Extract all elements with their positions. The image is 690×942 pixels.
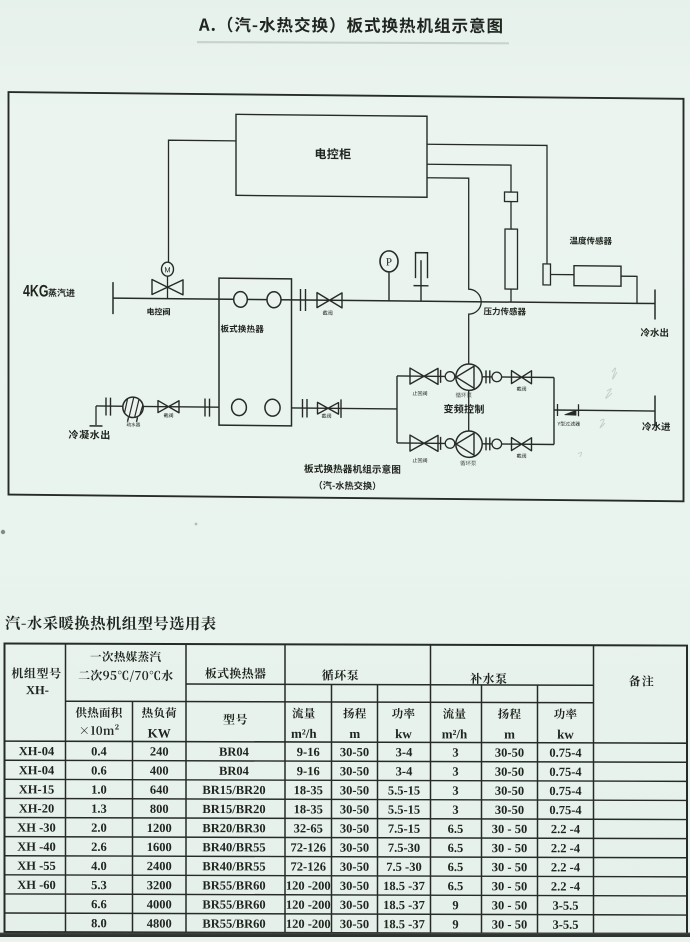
svg-text:6.5: 6.5 [448, 860, 464, 874]
svg-text:18.5 -37: 18.5 -37 [383, 898, 425, 912]
svg-text:3-5.5: 3-5.5 [552, 918, 578, 932]
pressure gauge P [380, 251, 398, 272]
svg-text:2.2 -4: 2.2 -4 [551, 822, 581, 836]
table column line x=285 [284, 644, 286, 933]
svg-text:4000: 4000 [147, 897, 172, 911]
scanner dark band at bottom edge [0, 933, 690, 937]
svg-text:3-4: 3-4 [396, 764, 413, 778]
label 截阀 (water valve) [322, 414, 331, 419]
table column line x=132.5 [132, 701, 134, 932]
header 循环泵 [322, 669, 358, 680]
pressure sensor tall rect [505, 229, 518, 289]
svg-text:72-126: 72-126 [291, 840, 326, 854]
svg-text:120 -200: 120 -200 [286, 879, 331, 893]
svg-text:400: 400 [150, 764, 169, 778]
table row line 9 [5, 894, 688, 896]
bottom branch pipe [397, 442, 456, 445]
table outer border [5, 644, 688, 935]
svg-text:30-50: 30-50 [340, 764, 369, 778]
water return pipe from HX to pump manifold [292, 408, 398, 409]
svg-text:3: 3 [452, 784, 458, 798]
table column line x=331.5 [331, 684, 333, 933]
HX top port circle left [234, 292, 248, 308]
electric control cabinet box [236, 114, 427, 197]
label 电控柜 [316, 148, 351, 160]
check valve 止回阀 top [410, 368, 438, 384]
svg-text:30-50: 30-50 [340, 841, 369, 855]
union circle topa [445, 372, 455, 382]
electric control valve 电控阀 bowtie [152, 280, 183, 295]
table row line 10 [5, 913, 688, 915]
svg-text:XH -55: XH -55 [17, 859, 56, 873]
svg-text:6.5: 6.5 [448, 822, 464, 836]
svg-text:5.5-15: 5.5-15 [388, 783, 420, 797]
svg-text:0.75-4: 0.75-4 [549, 784, 582, 798]
gate valve 截阀 bottom [512, 438, 532, 451]
svg-text:1.3: 1.3 [91, 802, 107, 816]
svg-text:0.75-4: 0.75-4 [549, 746, 582, 760]
svg-text:XH -40: XH -40 [17, 840, 56, 854]
HX top port circle right [267, 292, 281, 308]
subheader 型号 [223, 713, 247, 724]
svg-text:BR04: BR04 [219, 764, 250, 778]
title underline shadow [197, 41, 509, 44]
svg-text:XH -60: XH -60 [17, 878, 56, 892]
steam line gate valve 截阀 [317, 293, 342, 308]
svg-text:5.3: 5.3 [91, 878, 107, 892]
subheader 流量 @303.8 [292, 708, 315, 719]
label 截阀 (condensate valve) [164, 413, 173, 418]
svg-text:KW: KW [148, 725, 171, 740]
cold water inlet end tick [654, 396, 656, 427]
svg-text:0.6: 0.6 [91, 763, 107, 777]
svg-text:BR55/BR60: BR55/BR60 [202, 898, 265, 912]
link transmitter to pipe [621, 276, 637, 303]
svg-text:30 - 50: 30 - 50 [492, 879, 527, 893]
svg-text:9-16: 9-16 [297, 764, 320, 778]
union circle bottoma [445, 439, 455, 449]
svg-text:6.5: 6.5 [448, 879, 464, 893]
table horizontal line under group header (板式换热器/循环泵/补水泵) [186, 684, 594, 685]
circulation pump 循环泵 bottom [456, 431, 482, 458]
subheader 功率 @403.5 [392, 708, 415, 719]
pressure sensor junction small rect [505, 192, 518, 202]
svg-text:7.5 -30: 7.5 -30 [386, 860, 421, 874]
svg-text:30 - 50: 30 - 50 [492, 917, 527, 931]
top branch pipe [397, 375, 456, 378]
label 止回阀 top [413, 391, 427, 396]
Y strainer tick right [578, 404, 580, 416]
circulation pump 循环泵 top [456, 364, 482, 391]
check valve 止回阀 bottom [410, 435, 438, 451]
svg-text:XH -30: XH -30 [17, 821, 56, 835]
svg-text:0.4: 0.4 [91, 744, 107, 758]
plate heat exchanger box [219, 278, 292, 426]
table row line 8 [5, 875, 688, 877]
link probe to transmitter [551, 273, 575, 275]
subheader 功率 @565.5 [554, 708, 577, 719]
svg-text:kw: kw [395, 726, 412, 741]
steam pipe left end tick [112, 282, 114, 314]
thermometer well [420, 260, 422, 301]
svg-text:18.5 -37: 18.5 -37 [383, 917, 425, 931]
svg-text:120 -200: 120 -200 [286, 898, 331, 912]
subheader 流量 @454.5 [443, 708, 466, 719]
temperature probe small rect [543, 264, 551, 285]
svg-text:M: M [164, 265, 170, 274]
svg-text:120 -200: 120 -200 [286, 917, 331, 931]
svg-text:9: 9 [452, 917, 458, 931]
Y strainer triangle [565, 410, 576, 415]
svg-text:kw: kw [557, 727, 574, 742]
table horizontal line under 一次热媒蒸汽 cell and strip row [66, 701, 594, 703]
svg-text:3-5.5: 3-5.5 [552, 899, 578, 913]
table title 汽-水采暖换热机组型号选用表 [5, 615, 215, 630]
svg-text:800: 800 [150, 802, 169, 816]
svg-text:30-50: 30-50 [340, 879, 369, 893]
header 一次热媒蒸汽 [91, 651, 161, 662]
svg-text:XH-20: XH-20 [19, 801, 54, 815]
subheader 扬程 @354.8 [343, 708, 366, 719]
header 二次95℃/70℃水 [79, 669, 173, 682]
svg-text:30-50: 30-50 [495, 803, 524, 817]
svg-text:BR15/BR20: BR15/BR20 [202, 802, 265, 816]
label 温度传感器 [570, 236, 612, 245]
condensate union flanges 2 [204, 399, 206, 417]
table column line x=537.5 [537, 685, 539, 934]
table column line x=481.5 [481, 685, 483, 934]
svg-text:30-50: 30-50 [340, 898, 369, 912]
label 疏水器 [127, 422, 141, 426]
page title A.(汽-水热交换)板式换热机组示意图 [199, 16, 502, 33]
svg-text:240: 240 [150, 745, 169, 759]
svg-text:72-126: 72-126 [291, 860, 326, 874]
svg-text:3200: 3200 [147, 878, 172, 892]
svg-text:3: 3 [452, 803, 458, 817]
flange bars bottomb [485, 437, 487, 450]
svg-text:XH-: XH- [26, 683, 49, 697]
pump manifold left vertical [396, 376, 398, 443]
control wire 3 with hop over steam pipe [427, 178, 481, 364]
svg-text:640: 640 [150, 783, 169, 797]
variable frequency control wire between pumps [468, 390, 470, 431]
svg-text:18-35: 18-35 [294, 783, 323, 797]
svg-text:BR15/BR20: BR15/BR20 [202, 783, 265, 797]
steam inlet pipe 4KG [113, 298, 655, 303]
flange bar topa [440, 370, 442, 383]
condensate gate valve 截阀 [158, 401, 179, 413]
svg-text:m: m [349, 726, 360, 741]
svg-text:m²/h: m²/h [442, 726, 468, 741]
table column line x=593.5 [593, 645, 595, 934]
steam line union after HX [300, 289, 302, 311]
HX bottom port circle left [232, 399, 247, 416]
svg-text:30-50: 30-50 [340, 745, 369, 759]
table column line x=430.5 [430, 645, 432, 934]
svg-text:BR04: BR04 [219, 745, 250, 759]
table column line x=186 [185, 644, 187, 933]
label 电控阀 [147, 308, 170, 316]
svg-text:30-50: 30-50 [340, 783, 369, 797]
svg-text:30-50: 30-50 [340, 822, 369, 836]
motor actuator circle M [162, 262, 174, 276]
svg-text:BR55/BR60: BR55/BR60 [202, 917, 265, 931]
label 变频控制 [444, 404, 484, 414]
cold water inlet pipe with Y strainer [554, 410, 655, 411]
svg-text:18.5 -37: 18.5 -37 [383, 879, 425, 893]
svg-text:30-50: 30-50 [340, 917, 369, 931]
label 循环泵 bottom [460, 460, 476, 465]
water line gate valve 截阀 [318, 402, 339, 414]
svg-text:XH-04: XH-04 [19, 763, 55, 777]
svg-text:3: 3 [452, 765, 458, 779]
subheader 扬程 @509.5 [498, 708, 521, 719]
svg-text:P: P [386, 256, 392, 268]
steam trap feet [128, 417, 129, 422]
schematic border frame [9, 92, 684, 501]
Y strainer tick left [557, 404, 559, 416]
table row line 7 [5, 856, 688, 858]
label 冷水进 [642, 422, 670, 431]
svg-text:2.2 -4: 2.2 -4 [551, 860, 581, 874]
svg-text:6.5: 6.5 [448, 841, 464, 855]
caption 板式换热器机组示意图 [304, 464, 400, 474]
header 板式换热器 [205, 667, 266, 679]
table row line 3 [5, 779, 688, 781]
subheader x10m2 [81, 724, 119, 735]
gate valve 截阀 top [512, 371, 532, 384]
faint pencil smudges [578, 368, 617, 457]
svg-text:30-50: 30-50 [340, 802, 369, 816]
label 冷水出 [641, 328, 668, 337]
svg-text:7.5-30: 7.5-30 [388, 841, 420, 855]
svg-text:3: 3 [452, 745, 458, 759]
flange bar bottoma [440, 437, 442, 450]
sensor wire 2 (pressure) [427, 164, 511, 192]
sensor wire 1 (temperature) [427, 144, 547, 264]
HX bottom port circle right [265, 399, 280, 416]
svg-text:8.0: 8.0 [91, 916, 107, 930]
union circle bottomb [492, 439, 502, 449]
caption (汽-水热交换) [320, 481, 376, 490]
svg-text:9: 9 [452, 898, 458, 912]
label Y型过滤器 [558, 421, 581, 426]
label 截阀 bottom [517, 453, 526, 458]
label 截阀 top [517, 386, 526, 391]
label 止回阀 bottom [413, 458, 427, 463]
small scan specks left edge [1, 530, 5, 534]
svg-text:BR55/BR60: BR55/BR60 [202, 878, 265, 892]
svg-text:6.6: 6.6 [91, 897, 107, 911]
svg-text:BR20/BR30: BR20/BR30 [202, 821, 265, 835]
table subheader bottom line [5, 741, 688, 743]
flange bars topb [485, 370, 487, 383]
svg-text:2.6: 2.6 [91, 840, 107, 854]
svg-text:9-16: 9-16 [297, 745, 320, 759]
condensate pipe [96, 406, 219, 407]
svg-text:18-35: 18-35 [294, 802, 323, 816]
svg-text:XH-04: XH-04 [19, 744, 55, 758]
header 补水泵 [470, 673, 506, 684]
svg-text:32-65: 32-65 [294, 821, 323, 835]
svg-text:5.5-15: 5.5-15 [388, 803, 420, 817]
svg-text:30-50: 30-50 [495, 765, 524, 779]
svg-text:30-50: 30-50 [495, 784, 524, 798]
svg-text:4800: 4800 [147, 916, 172, 930]
subheader 供热面积 [76, 707, 122, 718]
svg-text:BR40/BR55: BR40/BR55 [202, 859, 265, 873]
svg-text:30-50: 30-50 [495, 746, 524, 760]
svg-text:2.2 -4: 2.2 -4 [551, 841, 581, 855]
condensate drain elbow [95, 406, 97, 425]
pressure gauge stem [388, 272, 390, 301]
svg-text:30 - 50: 30 - 50 [492, 898, 527, 912]
svg-text:4.0: 4.0 [91, 859, 107, 873]
svg-text:1600: 1600 [147, 840, 172, 854]
svg-text:m: m [504, 727, 515, 742]
header 备注 [629, 675, 654, 686]
table row line 5 [5, 818, 688, 820]
svg-text:30 - 50: 30 - 50 [492, 860, 527, 874]
steam pipe right end tick [654, 290, 656, 320]
label 蒸汽进 [48, 288, 75, 297]
table row line 6 [5, 837, 688, 839]
svg-text:4KG: 4KG [23, 282, 49, 300]
condensate union flanges [105, 398, 107, 416]
wire cabinet to motor valve [169, 140, 237, 263]
svg-text:2400: 2400 [147, 859, 172, 873]
table row line 4 [5, 798, 688, 800]
label 压力传感器 [484, 307, 526, 316]
svg-text:0.75-4: 0.75-4 [549, 765, 582, 779]
svg-text:30-50: 30-50 [340, 860, 369, 874]
svg-text:2.0: 2.0 [91, 821, 107, 835]
svg-text:m²/h: m²/h [291, 726, 317, 741]
label 板式换热器 (inside box) [221, 324, 264, 332]
svg-text:7.5-15: 7.5-15 [388, 822, 420, 836]
table row line 2 [5, 760, 688, 762]
table column line x=377.5 [377, 685, 379, 934]
subheader 热负荷 [142, 707, 176, 718]
svg-text:1200: 1200 [147, 821, 172, 835]
pump manifold right vertical [553, 378, 555, 445]
motor valve stem [167, 276, 169, 299]
svg-text:0.75-4: 0.75-4 [549, 803, 582, 817]
label 截阀 (steam valve) [323, 310, 333, 315]
label 循环泵 top [456, 392, 472, 397]
svg-text:30 - 50: 30 - 50 [492, 822, 527, 836]
label 冷凝水出 [69, 430, 110, 440]
svg-text:3-4: 3-4 [396, 745, 413, 759]
table column line x=65.5 [65, 644, 67, 933]
union circle topb [492, 372, 502, 382]
svg-text:BR40/BR55: BR40/BR55 [202, 840, 265, 854]
svg-text:30 - 50: 30 - 50 [492, 841, 527, 855]
water union flange single [340, 399, 342, 418]
water union flanges [302, 399, 304, 418]
svg-text:2.2 -4: 2.2 -4 [551, 879, 581, 893]
svg-text:XH-15: XH-15 [19, 782, 54, 796]
svg-text:1.0: 1.0 [91, 783, 107, 797]
header 机组型号 [12, 667, 61, 678]
temperature transmitter body 温度传感器 [574, 266, 621, 286]
